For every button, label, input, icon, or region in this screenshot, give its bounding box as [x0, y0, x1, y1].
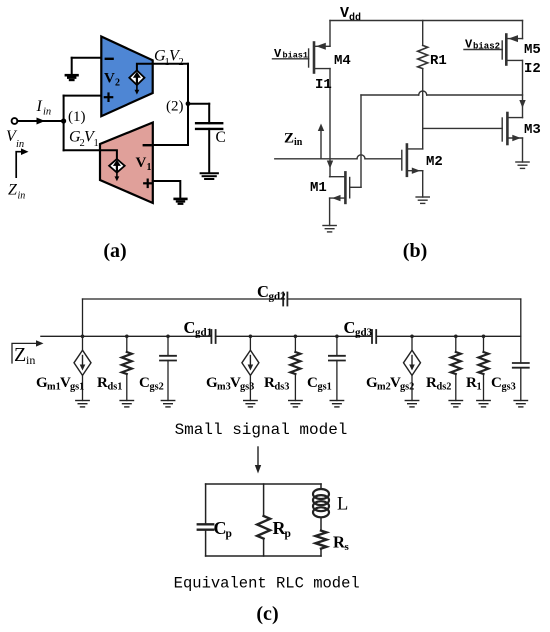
ground under M3	[516, 162, 529, 168]
wire I2 branch M5 to M3 drain	[522, 60, 524, 117]
svg-text:gd1: gd1	[195, 327, 212, 339]
svg-text:gs1: gs1	[70, 382, 84, 393]
svg-text:gs3: gs3	[502, 382, 516, 393]
svg-text:M1: M1	[310, 180, 327, 196]
RLC box bottom wire	[206, 555, 321, 557]
resistor Rds1	[126, 336, 128, 352]
svg-text:1: 1	[147, 162, 152, 173]
transistor M2 (NMOS)	[402, 145, 423, 198]
svg-text:gs2: gs2	[150, 382, 164, 393]
svg-text:V: V	[465, 38, 473, 52]
svg-text:M2: M2	[426, 154, 443, 170]
Zin input wire	[275, 158, 402, 160]
wire node1 vertical	[63, 96, 65, 151]
svg-text:M3: M3	[524, 122, 541, 138]
node dot Gm1	[81, 335, 85, 339]
wire V1 plus to ground	[153, 181, 181, 198]
wire Vdd to M4	[329, 21, 331, 47]
svg-text:R: R	[264, 375, 275, 391]
ground under M1	[323, 226, 336, 232]
wire top rail right end down	[520, 299, 522, 363]
ground Gm3	[244, 401, 257, 407]
svg-text:V: V	[136, 155, 147, 171]
Vdd rail	[330, 20, 523, 22]
svg-text:(c): (c)	[256, 603, 278, 625]
wire Vbias2 to M5 gate	[464, 49, 502, 51]
wire Vdd to M5	[522, 21, 524, 39]
RLC box top wire	[206, 483, 321, 485]
arrowhead down on I2 branch	[519, 100, 525, 108]
ground Gm2	[405, 401, 418, 407]
svg-text:C: C	[216, 129, 226, 146]
horizontal net wire y95	[361, 94, 523, 96]
op-amp V1 (red trapezoid)	[100, 123, 153, 204]
wire Vdd to R1	[422, 21, 424, 46]
svg-text:C: C	[184, 318, 196, 337]
ground Rds1	[120, 401, 133, 407]
wire minus input of V2	[72, 57, 102, 59]
resistor Rds3	[294, 336, 296, 352]
Zin up arrow	[320, 128, 322, 159]
wire Vbias1 to M4 gate	[273, 58, 309, 60]
current source Gm1Vgs1	[74, 350, 91, 375]
node 2 dot	[186, 101, 191, 106]
svg-text:C: C	[139, 375, 150, 391]
svg-text:1: 1	[94, 138, 99, 149]
main rail	[41, 335, 521, 337]
svg-text:C: C	[257, 282, 269, 301]
svg-text:m2: m2	[377, 382, 391, 393]
ground under M2	[416, 197, 429, 203]
transistor M1 (NMOS mirrored)	[330, 172, 350, 225]
svg-text:bias1: bias1	[283, 51, 309, 61]
svg-text:gs3: gs3	[240, 382, 254, 393]
svg-text:(2): (2)	[166, 99, 184, 115]
capacitor Cgs1	[336, 336, 338, 356]
resistor Rs	[316, 531, 327, 549]
svg-text:gs2: gs2	[400, 382, 414, 393]
op-amp V2 (blue trapezoid)	[101, 37, 152, 117]
svg-text:gd3: gd3	[355, 327, 373, 339]
svg-text:in: in	[43, 107, 51, 118]
resistor R1 (small signal)	[483, 336, 485, 352]
svg-text:ds3: ds3	[275, 382, 290, 393]
svg-text:M4: M4	[334, 53, 351, 69]
ground Cgs1	[330, 401, 343, 407]
wire M1 gate to net	[350, 186, 361, 188]
svg-text:(1): (1)	[68, 109, 86, 125]
top feedback rail	[83, 298, 521, 300]
svg-text:Equivalent RLC model: Equivalent RLC model	[174, 575, 360, 593]
ground under capacitor C	[201, 173, 218, 179]
svg-text:gd2: gd2	[269, 291, 287, 303]
transistor M3 (NMOS)	[502, 113, 522, 162]
resistor Rp	[263, 484, 265, 516]
wire R1 to M2 drain	[422, 69, 424, 149]
ground (triangle) at V2 minus	[66, 75, 78, 80]
svg-text:(a): (a)	[103, 240, 126, 262]
svg-text:Z: Z	[284, 131, 294, 147]
svg-text:M5: M5	[524, 42, 541, 58]
svg-text:Small signal model: Small signal model	[175, 421, 348, 439]
vertical net wire (gate feedback)	[360, 95, 362, 187]
capacitor Cgs2	[167, 336, 169, 356]
ground Gm1	[76, 401, 89, 407]
svg-text:in: in	[294, 137, 303, 148]
capacitor C	[208, 104, 210, 124]
resistor Rds2	[455, 336, 457, 352]
svg-text:V: V	[340, 5, 349, 22]
svg-text:in: in	[18, 191, 26, 202]
svg-text:R: R	[466, 375, 477, 391]
wire output G1V2	[137, 64, 188, 71]
wire M3 gate line	[423, 127, 503, 129]
transistor M4 (PMOS)	[309, 43, 330, 73]
svg-text:2: 2	[179, 57, 184, 68]
resistor R1	[418, 45, 428, 68]
wire to plus input of V2	[64, 95, 102, 97]
current source Gm2Vgs2	[411, 336, 413, 350]
svg-text:in: in	[26, 353, 35, 367]
ground Cgs3	[514, 401, 527, 407]
svg-text:p: p	[226, 528, 232, 540]
svg-text:L: L	[337, 495, 348, 515]
svg-text:I2: I2	[524, 61, 541, 77]
current source Gm3Vgs3	[249, 336, 251, 350]
wire node2 to capacitor	[188, 103, 209, 105]
svg-text:ds1: ds1	[108, 382, 123, 393]
svg-text:m1: m1	[47, 382, 61, 393]
inductor L	[320, 484, 322, 489]
node 1 dot	[61, 118, 66, 123]
dependent source diamond in V2	[129, 70, 144, 85]
svg-text:s: s	[345, 541, 350, 553]
svg-text:(b): (b)	[403, 240, 427, 262]
hop over R1 vertical	[419, 91, 427, 95]
wire input to node 1	[17, 120, 63, 122]
svg-text:ds2: ds2	[437, 382, 452, 393]
ground Rds2	[449, 401, 462, 407]
svg-text:Z: Z	[8, 182, 18, 199]
small arrow below diamond V2	[136, 85, 138, 91]
svg-text:bias2: bias2	[473, 42, 500, 52]
hop over vertical	[357, 155, 365, 159]
small arrow below diamond V1	[116, 173, 118, 178]
svg-text:I1: I1	[315, 77, 332, 93]
svg-text:m3: m3	[217, 382, 231, 393]
capacitor Cgd2 (series)	[282, 293, 284, 306]
svg-text:V: V	[274, 47, 282, 61]
dependent source diamond in V1	[109, 159, 125, 173]
capacitor Cgs3	[513, 362, 529, 364]
wire V1 minus to node2	[153, 144, 188, 146]
arrowhead Iin	[37, 118, 46, 125]
wire G2V1 from node1 to diamond of V1	[64, 150, 117, 159]
svg-text:R: R	[426, 375, 437, 391]
ground Cgs2	[161, 401, 174, 407]
arrow to RLC model	[257, 447, 259, 467]
capacitor Cp	[205, 484, 207, 524]
svg-text:2: 2	[115, 78, 120, 89]
svg-text:Z: Z	[14, 344, 26, 366]
capacitor Cgd3 (series)	[371, 330, 373, 343]
svg-text:R: R	[97, 375, 108, 391]
svg-text:V: V	[104, 71, 115, 87]
wire I1 branch M4 to M1 drain	[329, 69, 331, 177]
Zin arrow (c)	[12, 343, 37, 363]
svg-text:C: C	[344, 318, 356, 337]
svg-text:C: C	[307, 375, 318, 391]
svg-text:in: in	[16, 139, 24, 150]
svg-text:I: I	[36, 98, 43, 115]
ground R1c	[477, 401, 490, 407]
svg-text:gs1: gs1	[318, 382, 332, 393]
input terminal circle	[12, 118, 18, 124]
svg-text:1: 1	[477, 382, 482, 393]
ground Rds3	[289, 401, 302, 407]
arrowhead down on I1 branch	[327, 161, 333, 169]
wire node2 vertical	[187, 64, 189, 145]
svg-text:dd: dd	[349, 12, 361, 24]
capacitor Cgd1 (series)	[210, 330, 212, 343]
transistor M5 (PMOS)	[502, 35, 522, 65]
svg-text:C: C	[491, 375, 502, 391]
svg-text:R1: R1	[430, 53, 447, 69]
wire top rail to Gm1	[82, 299, 84, 350]
arrow Vin-Zin elbow	[16, 152, 22, 177]
svg-text:p: p	[285, 528, 291, 540]
wire down to ground at minus input	[71, 58, 73, 75]
ground (triangle) at V1 plus	[175, 199, 187, 204]
